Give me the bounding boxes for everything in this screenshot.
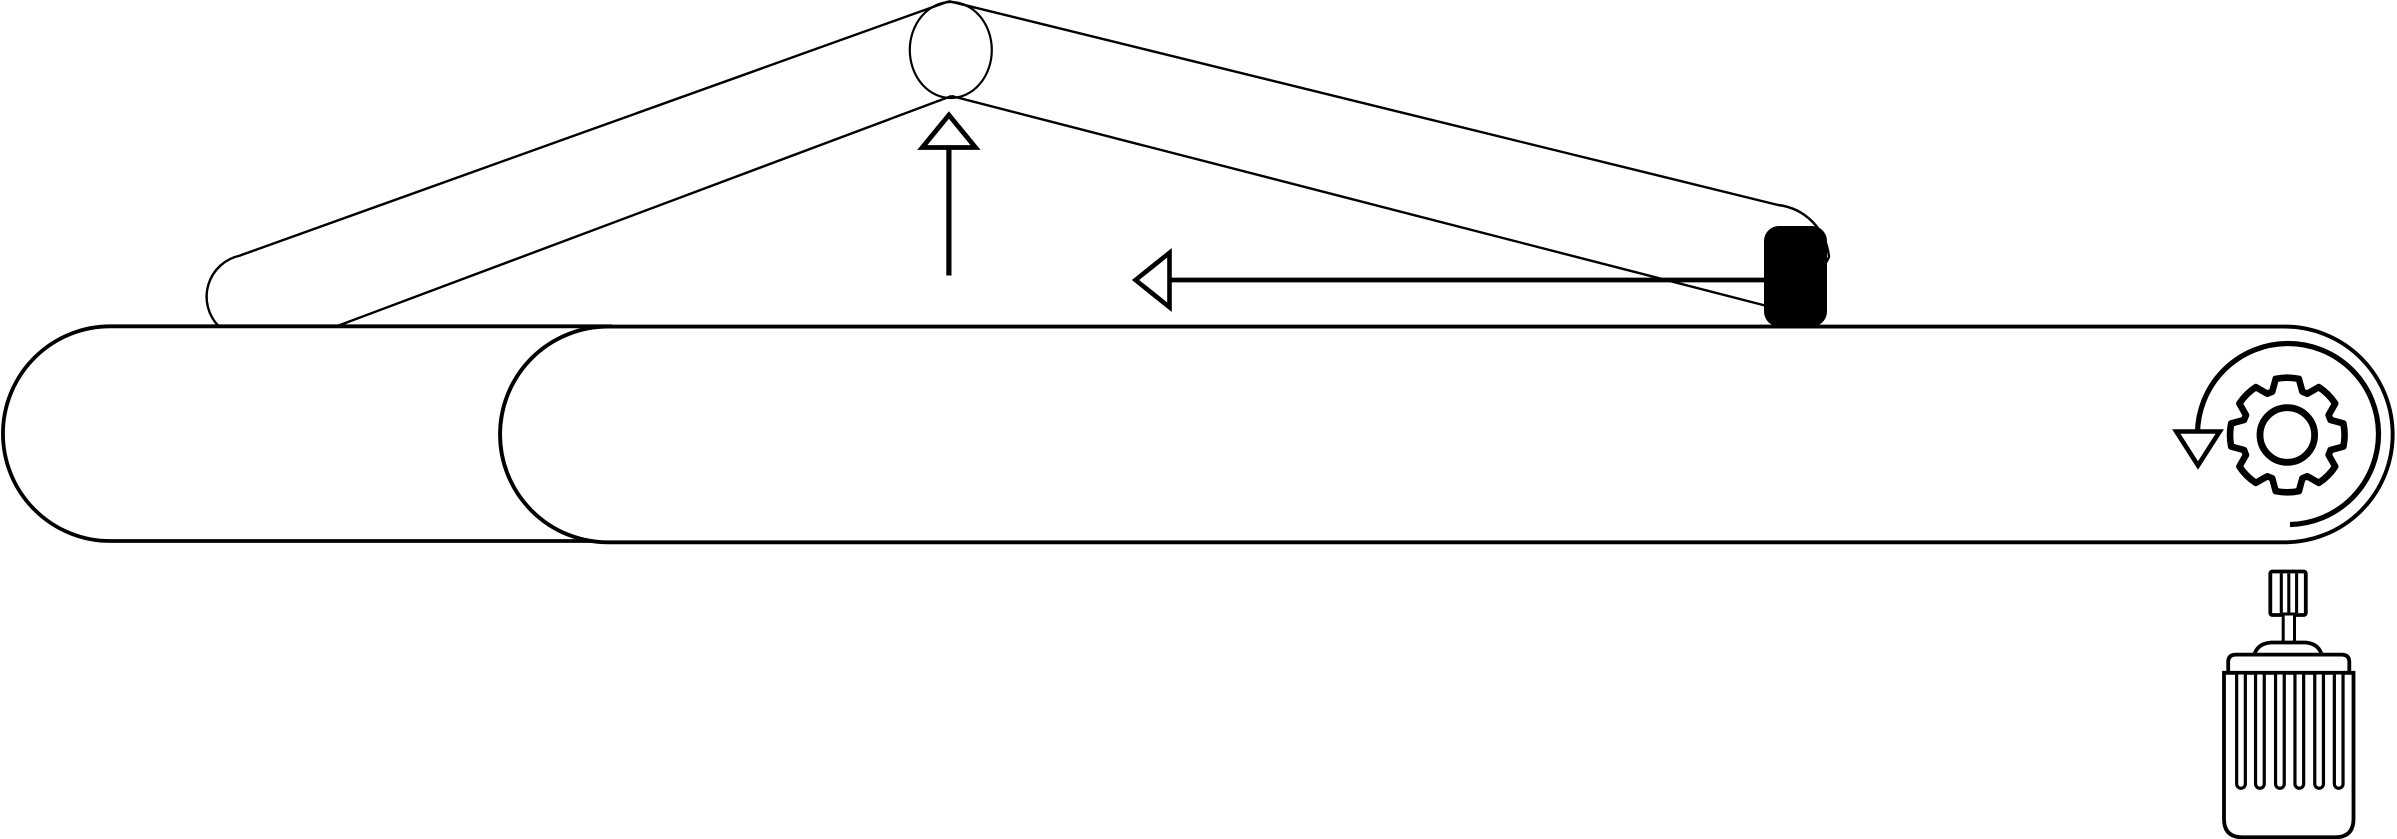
belt right lower edge	[952, 96, 1766, 306]
gear hub hole	[2260, 408, 2315, 463]
belt left lower edge	[336, 96, 952, 327]
belt right upper edge	[949, 1, 1778, 205]
motor fin slot 3	[2276, 675, 2285, 789]
motor fin slot 1	[2237, 675, 2246, 789]
motor fin slot 6	[2334, 675, 2343, 789]
head pulley circle	[910, 2, 992, 98]
motor body	[2224, 673, 2354, 838]
rotation arrow head	[2176, 432, 2219, 466]
left arrow head	[1136, 253, 1170, 307]
tensioner block	[1764, 226, 1827, 327]
motor fin slot 2	[2256, 675, 2265, 789]
motor shaft	[2283, 614, 2294, 644]
gear ring	[2230, 378, 2345, 493]
belt left end cap	[207, 256, 241, 327]
motor knob stripe 1	[2280, 574, 2283, 614]
motor top hump	[2255, 643, 2322, 655]
belt right end cap	[1778, 205, 1829, 272]
motor fin slot 4	[2295, 675, 2304, 789]
conveyor drum A (left, rear)	[3, 326, 612, 541]
motor cap band	[2228, 655, 2349, 673]
up arrow shaft	[946, 146, 951, 276]
motor knob stripe 2	[2287, 574, 2290, 614]
motor fin slot 5	[2315, 675, 2324, 789]
conveyor drum B (front, long)	[500, 327, 2393, 543]
motor knob stripe 3	[2295, 574, 2298, 614]
rotation arrow arc	[2198, 344, 2379, 525]
belt left upper edge	[240, 1, 949, 255]
up arrow head	[922, 115, 975, 148]
motor shaft knob	[2270, 572, 2306, 616]
left arrow shaft	[1165, 278, 1764, 283]
